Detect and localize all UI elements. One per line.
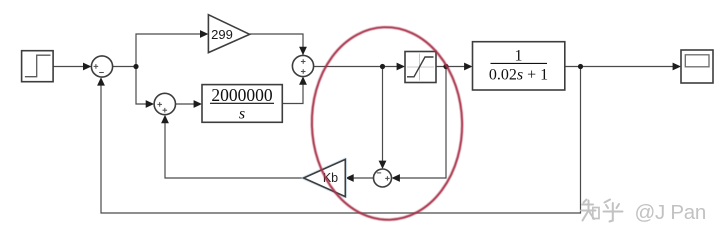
- svg-text:@J Pan: @J Pan: [635, 201, 706, 224]
- svg-text:1: 1: [515, 48, 523, 65]
- svg-text:s: s: [239, 106, 245, 123]
- svg-text:2000000: 2000000: [211, 85, 273, 105]
- svg-text:0.02s + 1: 0.02s + 1: [489, 67, 548, 84]
- svg-text:299: 299: [211, 27, 233, 42]
